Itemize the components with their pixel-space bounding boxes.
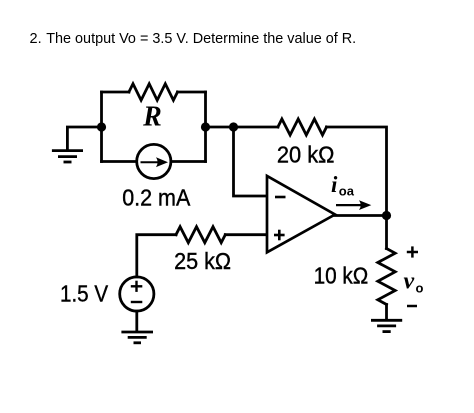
svg-text:0.2 mA: 0.2 mA bbox=[122, 185, 191, 211]
label i_oa bbox=[331, 172, 355, 199]
wire: loop bottom-right segment bbox=[171, 160, 206, 163]
resistor 10k zigzag bbox=[378, 249, 395, 305]
resistor R zigzag bbox=[129, 84, 178, 100]
svg-text:2.: 2. bbox=[30, 31, 42, 47]
i_oa current arrow bbox=[336, 200, 371, 210]
svg-text:20 kΩ: 20 kΩ bbox=[277, 142, 335, 168]
wire: loop top-right segment bbox=[178, 91, 206, 94]
node junction dot at loop right bbox=[201, 122, 210, 131]
svg-text:25 kΩ: 25 kΩ bbox=[174, 248, 231, 274]
node B junction dot bbox=[229, 122, 238, 131]
wire: plus input segment bbox=[225, 233, 265, 236]
plus sign inside 1.5 V source bbox=[131, 281, 143, 292]
op-amp U1 triangle bbox=[267, 176, 335, 252]
svg-text:i: i bbox=[331, 172, 338, 197]
wire: 20k to right corner and down to output node bbox=[327, 127, 387, 216]
resistor 25k zigzag bbox=[176, 227, 225, 243]
wire: source bottom to ground bbox=[135, 311, 138, 331]
label v_o bbox=[404, 268, 424, 295]
svg-text:The output Vo = 3.5 V. Determi: The output Vo = 3.5 V. Determine the val… bbox=[46, 31, 356, 47]
wire: node B down to inverting input bbox=[234, 127, 266, 196]
svg-text:10 kΩ: 10 kΩ bbox=[314, 262, 369, 288]
output plus sign bbox=[407, 246, 418, 257]
wire: loop bottom-left segment bbox=[102, 160, 137, 163]
svg-text:1.5 V: 1.5 V bbox=[60, 281, 109, 307]
wire: 25k left corner down to source bbox=[137, 235, 176, 277]
op-amp non-inverting input plus sign bbox=[274, 230, 285, 241]
current source arrow bbox=[141, 157, 169, 167]
current source 0.2 mA circle bbox=[137, 144, 171, 178]
svg-text:o: o bbox=[416, 281, 424, 296]
wire: loop right vertical bbox=[204, 92, 207, 162]
resistor 20k zigzag bbox=[278, 119, 327, 135]
minus sign inside 1.5 V source bbox=[131, 301, 143, 303]
wire: node A to node B horizontal bbox=[206, 126, 278, 129]
svg-text:R: R bbox=[142, 101, 162, 132]
op-amp inverting input minus sign bbox=[275, 196, 286, 199]
node A junction dot bbox=[97, 122, 106, 131]
wire: op-amp output bbox=[335, 214, 387, 217]
ground symbol top-left bbox=[52, 151, 83, 162]
ground symbol below 10k bbox=[371, 320, 402, 331]
ground symbol below 1.5 V source bbox=[121, 332, 153, 343]
wire: 10k bottom to ground bbox=[385, 305, 388, 320]
wire: ground stem top-left bbox=[67, 127, 101, 150]
voltage source 1.5 V circle bbox=[120, 277, 154, 311]
svg-text:v: v bbox=[404, 268, 415, 294]
output minus sign bbox=[407, 305, 417, 308]
wire: loop left vertical bbox=[100, 92, 103, 162]
output node junction dot bbox=[382, 211, 391, 220]
svg-text:oa: oa bbox=[339, 184, 355, 199]
wire: output node down to 10k bbox=[385, 216, 388, 249]
wire: loop top-left segment bbox=[102, 91, 129, 94]
